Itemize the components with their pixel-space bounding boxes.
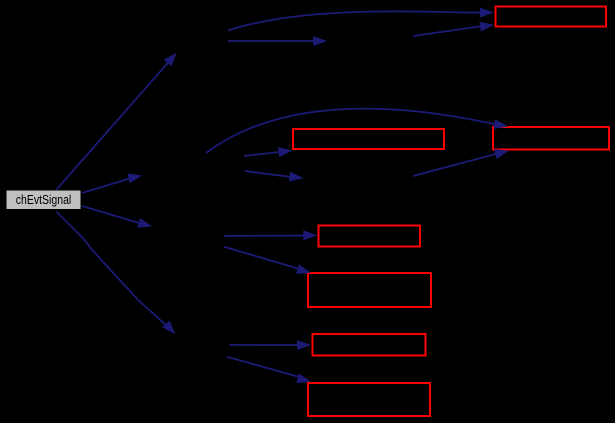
box B5 two-line truncated callee [308, 273, 431, 307]
edge hidden node6 to box B7 [227, 357, 313, 387]
edge hidden node5 to box B4 (horizontal) [224, 230, 317, 240]
box B4 truncated callee [319, 226, 421, 247]
box B3 middle-right truncated callee [493, 127, 609, 150]
node chEvtSignal (current function) [7, 191, 81, 210]
box B7 two-line truncated callee [308, 383, 430, 416]
edge chEvtSignal to hidden node5 [82, 206, 153, 231]
edge hidden node3 to box B3 (long arc over B2) [206, 109, 509, 153]
edge hidden node3 to box B2 [244, 146, 293, 158]
edge chEvtSignal to hidden node3 [82, 171, 143, 193]
svg-text:chEvtSignal: chEvtSignal [16, 192, 72, 207]
box B2 middle-left truncated callee [293, 129, 444, 149]
box B1 top-right truncated callee [496, 7, 607, 27]
edge hidden node1 to hidden node2 (horizontal) [228, 36, 327, 46]
edge hidden node6 to box B6 (horizontal) [230, 340, 311, 350]
edge hidden node1 to box B1 (long top curve) [228, 7, 494, 30]
edge hidden node3 to hidden node4 [245, 171, 304, 183]
edge hidden node4 to box B3 [413, 146, 510, 176]
edge chEvtSignal to hidden node6 (down-right) [56, 212, 179, 338]
edge hidden node2 to box B1 [413, 20, 495, 36]
edge hidden node5 to box B5 [224, 247, 312, 278]
box B6 truncated callee [313, 334, 426, 356]
edge chEvtSignal to hidden node1 (up-right) [57, 49, 181, 189]
